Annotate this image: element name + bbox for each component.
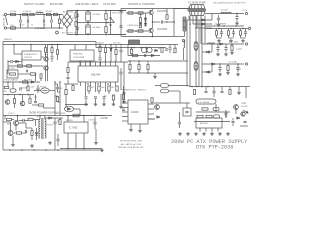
capacitor C41: [224, 110, 227, 118]
junction reg a: [67, 115, 69, 117]
ground U2 a: [129, 128, 133, 131]
junction TH bottom: [75, 34, 77, 36]
wire pin5 down: [100, 85, 102, 87]
capacitor C34: [36, 85, 39, 93]
wire right link: [240, 125, 248, 127]
wire pg column: [54, 82, 56, 116]
transistor Q4: [44, 66, 48, 70]
wire U1 top pin 9: [115, 62, 117, 66]
resistor R10: [128, 30, 133, 32]
transistor Q7: [5, 100, 10, 105]
wire r83 up: [59, 118, 61, 120]
wire c40 up: [179, 112, 181, 118]
wire Q2 emitter: [152, 33, 154, 37]
wire monitor drop1: [74, 45, 76, 51]
transistor Q2 2SC3039: [149, 28, 153, 32]
svg-text:C49 47u: C49 47u: [88, 120, 95, 122]
capacitor C48: [56, 134, 59, 146]
wire R35 bot: [51, 52, 53, 56]
resistor R1: [23, 13, 28, 15]
svg-text:GOOD: GOOD: [241, 106, 248, 108]
capacitor C35: [122, 109, 125, 110]
wire R36 top: [57, 45, 59, 50]
svg-text:AC DET: AC DET: [8, 67, 16, 70]
resistor R56: [174, 48, 176, 53]
wire c42 a: [232, 118, 234, 121]
capacitor C18 output: [244, 29, 247, 38]
wire r56 a: [174, 45, 176, 49]
wire R45 top: [72, 84, 74, 86]
junction AC5: [59, 14, 61, 16]
wire aux rail drop: [95, 42, 97, 48]
svg-text:C1 R1 L1: C1 R1 L1: [23, 11, 32, 13]
wire R59 a: [231, 44, 233, 46]
junction pg: [54, 81, 56, 83]
svg-text:2SC3040F/2SC5027 SCHOTTKY: 2SC3040F/2SC5027 SCHOTTKY: [213, 3, 246, 5]
wire U2 left pin 2: [122, 107, 128, 109]
junction prot mid: [24, 65, 26, 67]
capacitor C19: [51, 57, 54, 58]
inductor L5 choke on secondary: [194, 42, 198, 51]
wire U1 bottom pin 1: [80, 82, 82, 86]
junction Q2 rail: [152, 36, 154, 38]
wire U1 top pin 10: [110, 62, 112, 66]
capacitor C47: [25, 130, 26, 133]
inductor L2 filter choke: [36, 28, 43, 29]
resistor R73: [229, 90, 231, 95]
wire Q2 emitter to T2: [170, 36, 185, 38]
junction AC3: [43, 14, 45, 16]
junction shield b: [30, 44, 32, 46]
diode D15: [237, 117, 239, 119]
svg-text:AC OUTLET 1A: AC OUTLET 1A: [62, 32, 77, 35]
resistor R52: [129, 65, 131, 70]
wire ps link: [155, 85, 161, 87]
resistor R13: [166, 15, 168, 20]
wire gnd drop driver: [154, 73, 156, 75]
resistor R61: [23, 81, 28, 83]
wire right pair: [123, 62, 125, 100]
svg-text:4K7: 4K7: [31, 87, 34, 89]
resistor R41: [98, 86, 100, 91]
svg-text:-5V 0.3A: -5V 0.3A: [228, 61, 237, 64]
svg-text:SHIELD: SHIELD: [4, 39, 12, 41]
diode D11b: [207, 71, 210, 73]
ground driver: [153, 75, 157, 78]
wire R39 bot: [115, 55, 117, 63]
ground U1 a: [84, 103, 88, 106]
wire selector to mid: [108, 22, 115, 24]
wire R34 top: [99, 45, 101, 47]
wire q6 up: [12, 82, 14, 89]
wire R6 bot: [105, 33, 107, 35]
wire lower left rail: [3, 81, 40, 83]
wire sup drop b: [225, 112, 227, 117]
wire TH3 lead: [75, 26, 77, 34]
wire PWR-OK lead: [169, 90, 181, 92]
svg-text:DBL494: DBL494: [91, 73, 101, 77]
wire R53 b: [138, 70, 140, 74]
wire rectified top rail: [67, 10, 126, 12]
diode D7: [110, 48, 112, 51]
junction mid a: [7, 94, 9, 96]
wire T3 secondary tap 4: [200, 16, 202, 45]
junction Q12 mid: [152, 21, 154, 23]
wire q5 up: [17, 116, 19, 121]
junction T3 mid: [173, 21, 175, 23]
wire bridge to bottom rail: [66, 27, 68, 35]
wire R37 down: [40, 78, 42, 81]
wire fb across: [154, 102, 190, 104]
wire T6 pri top: [39, 116, 41, 120]
wire sb gnd a: [12, 136, 14, 144]
junction pin row c: [107, 83, 109, 85]
wire r67 stub: [57, 95, 59, 98]
wire r85 a: [31, 128, 33, 131]
svg-text:+5VSB: +5VSB: [100, 117, 108, 120]
wire mid column: [47, 45, 49, 82]
wire bottom rail to stage: [108, 34, 126, 36]
resistor R72: [193, 90, 195, 95]
junction +12V cap: [236, 13, 238, 15]
wire c24 gnd: [103, 99, 105, 103]
diode D18: [35, 133, 37, 136]
wire box top feed: [30, 45, 32, 52]
capacitor C22: [85, 97, 88, 98]
junction drive a: [131, 47, 133, 49]
ground sb c: [48, 141, 52, 144]
capacitor C46 standby: [53, 118, 56, 128]
diode D11: [212, 63, 215, 65]
wire out bond 0: [217, 37, 222, 39]
transformer T6 core: [42, 118, 43, 139]
wire opto gnd: [79, 109, 81, 116]
svg-text:EMI FILTER: EMI FILTER: [50, 3, 63, 6]
capacitor C27: [123, 92, 126, 93]
capacitor C16 output: [220, 29, 223, 38]
ground U1 c: [102, 103, 106, 106]
junction ctl b: [120, 44, 122, 46]
wire U1 top pin 16: [80, 62, 82, 66]
ground bottom row 180: [178, 132, 182, 135]
capacitor C24: [103, 97, 106, 98]
wire r85 b: [31, 136, 33, 141]
wire sec v3: [198, 20, 200, 87]
resistor R50: [161, 48, 163, 53]
wire prot drop: [7, 60, 9, 74]
junction ctl a: [99, 44, 101, 46]
wire r47 gnd: [113, 100, 115, 103]
resistor R66: [39, 104, 44, 106]
opto-isolator IC3: [41, 88, 49, 93]
svg-text:TIP32 2SA934: TIP32 2SA934: [4, 79, 18, 82]
capacitor C11 coupling: [161, 20, 162, 23]
transformer T6 standby primary: [39, 119, 40, 138]
ground -12V b: [224, 53, 228, 56]
junction T2 b: [140, 47, 142, 49]
switch SW1 voltage selector: [110, 17, 115, 25]
wire Q2 base rail: [126, 30, 148, 32]
ground sb a: [11, 143, 15, 146]
wire C20 bot: [99, 60, 101, 66]
junction mid b: [19, 94, 21, 96]
wire r73 up: [229, 87, 231, 90]
wire bus under IC: [66, 104, 88, 106]
wire R35 top: [51, 45, 53, 48]
capacitor C1: [30, 13, 34, 15]
transistor Q6 TO-92: [10, 89, 16, 92]
block U3 protector IC: [196, 118, 222, 128]
resistor R33: [31, 73, 36, 75]
op-amp U2 LM339 comparator: [128, 100, 148, 124]
terminal AC outlet: [56, 31, 59, 34]
junction primary top: [120, 10, 122, 12]
svg-text:F1 5A: F1 5A: [10, 10, 16, 13]
wire Z1 bottom lead: [59, 24, 61, 28]
ground output 0: [217, 39, 221, 42]
diode D4: [16, 60, 19, 62]
resistor R39: [115, 50, 117, 55]
junction R6 bottom: [105, 34, 107, 36]
wire fb up: [186, 103, 188, 108]
wire shield line: [3, 41, 96, 43]
wire c45 b: [24, 120, 28, 122]
wire AC neutral bottom: [7, 27, 64, 29]
wire Q1 base rail: [126, 12, 148, 14]
ground -5V b: [226, 71, 230, 74]
wire C4 bottom lead: [43, 23, 45, 28]
svg-text:FR154: FR154: [47, 125, 53, 127]
wire C4 top lead: [43, 15, 45, 20]
wire R54 b: [147, 70, 149, 74]
wire sec v4: [201, 24, 203, 87]
resistor R51: [133, 54, 138, 56]
wire c31 up: [225, 44, 227, 45]
wire U1 bottom pin 2: [85, 82, 87, 86]
wire Q4 down: [45, 70, 47, 81]
wire sup mid: [196, 111, 230, 113]
wire R39 top: [115, 45, 117, 50]
junction rail c: [27, 81, 29, 83]
wire R70 down: [123, 100, 125, 104]
ground C13: [217, 23, 221, 26]
junction shield a: [13, 44, 15, 46]
wire sup right: [245, 87, 247, 99]
wire r55 b: [131, 54, 133, 56]
svg-text:4K7: 4K7: [91, 87, 94, 89]
wire q5 t6: [19, 122, 27, 124]
wire AC line top: [7, 14, 64, 16]
capacitor C4B Y-cap: [51, 20, 52, 23]
capacitor C36b: [56, 84, 59, 92]
svg-text:C2 X2: C2 X2: [19, 25, 24, 27]
wire r82 drop: [35, 120, 37, 127]
wire opto left: [34, 90, 41, 92]
junction mid top: [77, 10, 79, 12]
wire out bond 2: [241, 37, 246, 39]
diode D9 steering: [151, 54, 153, 56]
wire sb right drop: [54, 128, 56, 150]
wire c23 gnd: [95, 99, 97, 103]
wire secondary bus 1: [189, 19, 212, 21]
wire c35b a: [35, 95, 37, 101]
wire U1 top pin 11: [105, 62, 107, 66]
wire d18 a: [36, 128, 38, 132]
wire C19 bot: [51, 59, 53, 62]
wire r84 out: [22, 132, 27, 134]
wire U1 top pin 12: [100, 62, 102, 66]
diode D2: [144, 23, 146, 26]
junction sb bottom c: [33, 149, 35, 151]
wire C3 top lead: [27, 15, 29, 20]
wire primary column: [120, 9, 122, 37]
wire d4 wire: [13, 61, 16, 63]
inductor L3 output choke: [221, 12, 231, 13]
junction pin row b: [97, 83, 99, 85]
wire u4 gnd3: [83, 133, 85, 149]
svg-text:2SC3039: 2SC3039: [157, 10, 168, 13]
varistor Z1: [58, 19, 60, 23]
wire aux rail stub: [96, 47, 128, 49]
wire monitor drop2: [85, 45, 87, 51]
capacitor C45: [23, 119, 24, 122]
junction reg b: [83, 115, 85, 117]
capacitor C4 Y-cap: [43, 20, 44, 23]
wire r41 mid: [98, 91, 100, 94]
wire U3 pin 218: [217, 128, 219, 132]
capacitor C10: [120, 26, 123, 27]
capacitor C13: [217, 15, 220, 23]
junction T3 feed: [173, 8, 175, 10]
junction sb q5: [17, 115, 19, 117]
thermistor TH3: [75, 22, 77, 27]
resistor R47: [112, 95, 114, 100]
svg-text:UNISONIC: UNISONIC: [73, 54, 83, 56]
diode D1: [144, 18, 146, 21]
wire d4 drop: [21, 58, 23, 64]
svg-text:2K2: 2K2: [111, 87, 114, 89]
resistor R6 bleeder: [105, 27, 107, 33]
wire D7 bot: [110, 51, 112, 62]
junction sup 208: [207, 86, 209, 88]
wire c49 gnd: [95, 129, 97, 141]
wire C5 top lead: [87, 11, 89, 13]
resistor R38: [104, 48, 106, 53]
wire TH23 join: [75, 17, 77, 21]
wire u4 gnd2: [75, 133, 77, 149]
junction -12 a: [217, 43, 219, 45]
wire R20 bottom: [216, 35, 218, 38]
wire r82 out: [33, 119, 40, 121]
fuse F1: [11, 13, 16, 15]
wire D1 bot: [145, 21, 147, 26]
junction sup b: [225, 116, 227, 118]
junction R36: [57, 44, 59, 46]
wire U1 top pin 15: [85, 62, 87, 66]
terminal AC line: [4, 13, 6, 15]
wire steer rail 2: [128, 55, 160, 57]
junction R5 top: [105, 10, 107, 12]
wire c32b up: [237, 64, 239, 65]
resistor R45: [72, 86, 74, 91]
resistor R63: [27, 86, 29, 91]
wire left sb: [3, 121, 11, 123]
junction -5 b: [237, 63, 239, 65]
capacitor C32b: [236, 65, 239, 72]
junction drv 1: [129, 60, 131, 62]
ground U2 b: [138, 129, 142, 132]
ground reg main: [100, 149, 104, 152]
wire C2 top lead: [20, 15, 22, 20]
junction AC6: [59, 27, 61, 29]
diode D5 output: [202, 19, 204, 21]
wire spine jumper: [187, 19, 189, 21]
wire c39 up: [221, 87, 223, 91]
ground bottom row 220: [218, 132, 222, 135]
ground bottom row 196: [194, 132, 198, 135]
junction mid center: [77, 22, 79, 24]
wire T2 tap: [184, 31, 186, 37]
wire d18 b: [36, 136, 38, 140]
wire R52 a: [129, 61, 131, 65]
wire Q2 emitter rail: [121, 36, 170, 38]
wire sec link2: [202, 71, 212, 73]
resistor R82: [28, 118, 33, 120]
wire TH2 lead: [75, 11, 77, 13]
capacitor C8: [76, 28, 79, 29]
wire U3 pin 212: [211, 128, 213, 132]
wire r67 a: [55, 95, 58, 97]
capacitor C28: [165, 49, 168, 50]
junction sb bottom d: [45, 149, 47, 151]
switch S1 mains: [6, 16, 8, 25]
wire -5V rail: [202, 63, 244, 65]
wire U2 left pin 5: [122, 120, 128, 122]
junction C56 mid: [87, 22, 89, 24]
junction AC4: [43, 27, 45, 29]
wire t6 pri drop: [25, 123, 27, 128]
wire PS-ON lead: [169, 85, 190, 87]
svg-text:CIRCUIT: CIRCUIT: [24, 57, 33, 59]
inductor L6 choke on secondary: [194, 62, 198, 71]
connector aux: [214, 115, 220, 118]
wire U1 top bus: [68, 61, 128, 63]
resistor R11: [138, 30, 143, 32]
wire Q2 collector: [152, 22, 154, 28]
terminal -12V: [245, 43, 247, 45]
junction drv 3: [147, 72, 149, 74]
svg-text:-12V 0.3A: -12V 0.3A: [228, 41, 238, 44]
svg-text:POWERGOOD CIRCUIT: POWERGOOD CIRCUIT: [121, 90, 147, 92]
resistor R46: [65, 90, 67, 95]
wire L4 down: [183, 48, 185, 60]
capacitor C26: [119, 68, 122, 78]
svg-text:IC 7805: IC 7805: [69, 127, 78, 130]
capacitor C43: [244, 121, 247, 122]
svg-text:+5V SENSE: +5V SENSE: [214, 24, 227, 26]
wire pin3 down: [90, 85, 92, 87]
wire pin7 down: [110, 85, 112, 87]
wire sec link2 drop: [211, 64, 213, 72]
wire R34 bot: [99, 52, 101, 58]
wire drive q: [127, 45, 129, 56]
resistor R64: [13, 99, 15, 104]
thermistor TH1: [11, 27, 16, 29]
svg-text:T3 MAIN XFMR: T3 MAIN XFMR: [188, 2, 206, 5]
inductor L1 filter choke: [36, 12, 43, 13]
wire mid link: [3, 94, 34, 96]
diode D10: [220, 43, 223, 45]
